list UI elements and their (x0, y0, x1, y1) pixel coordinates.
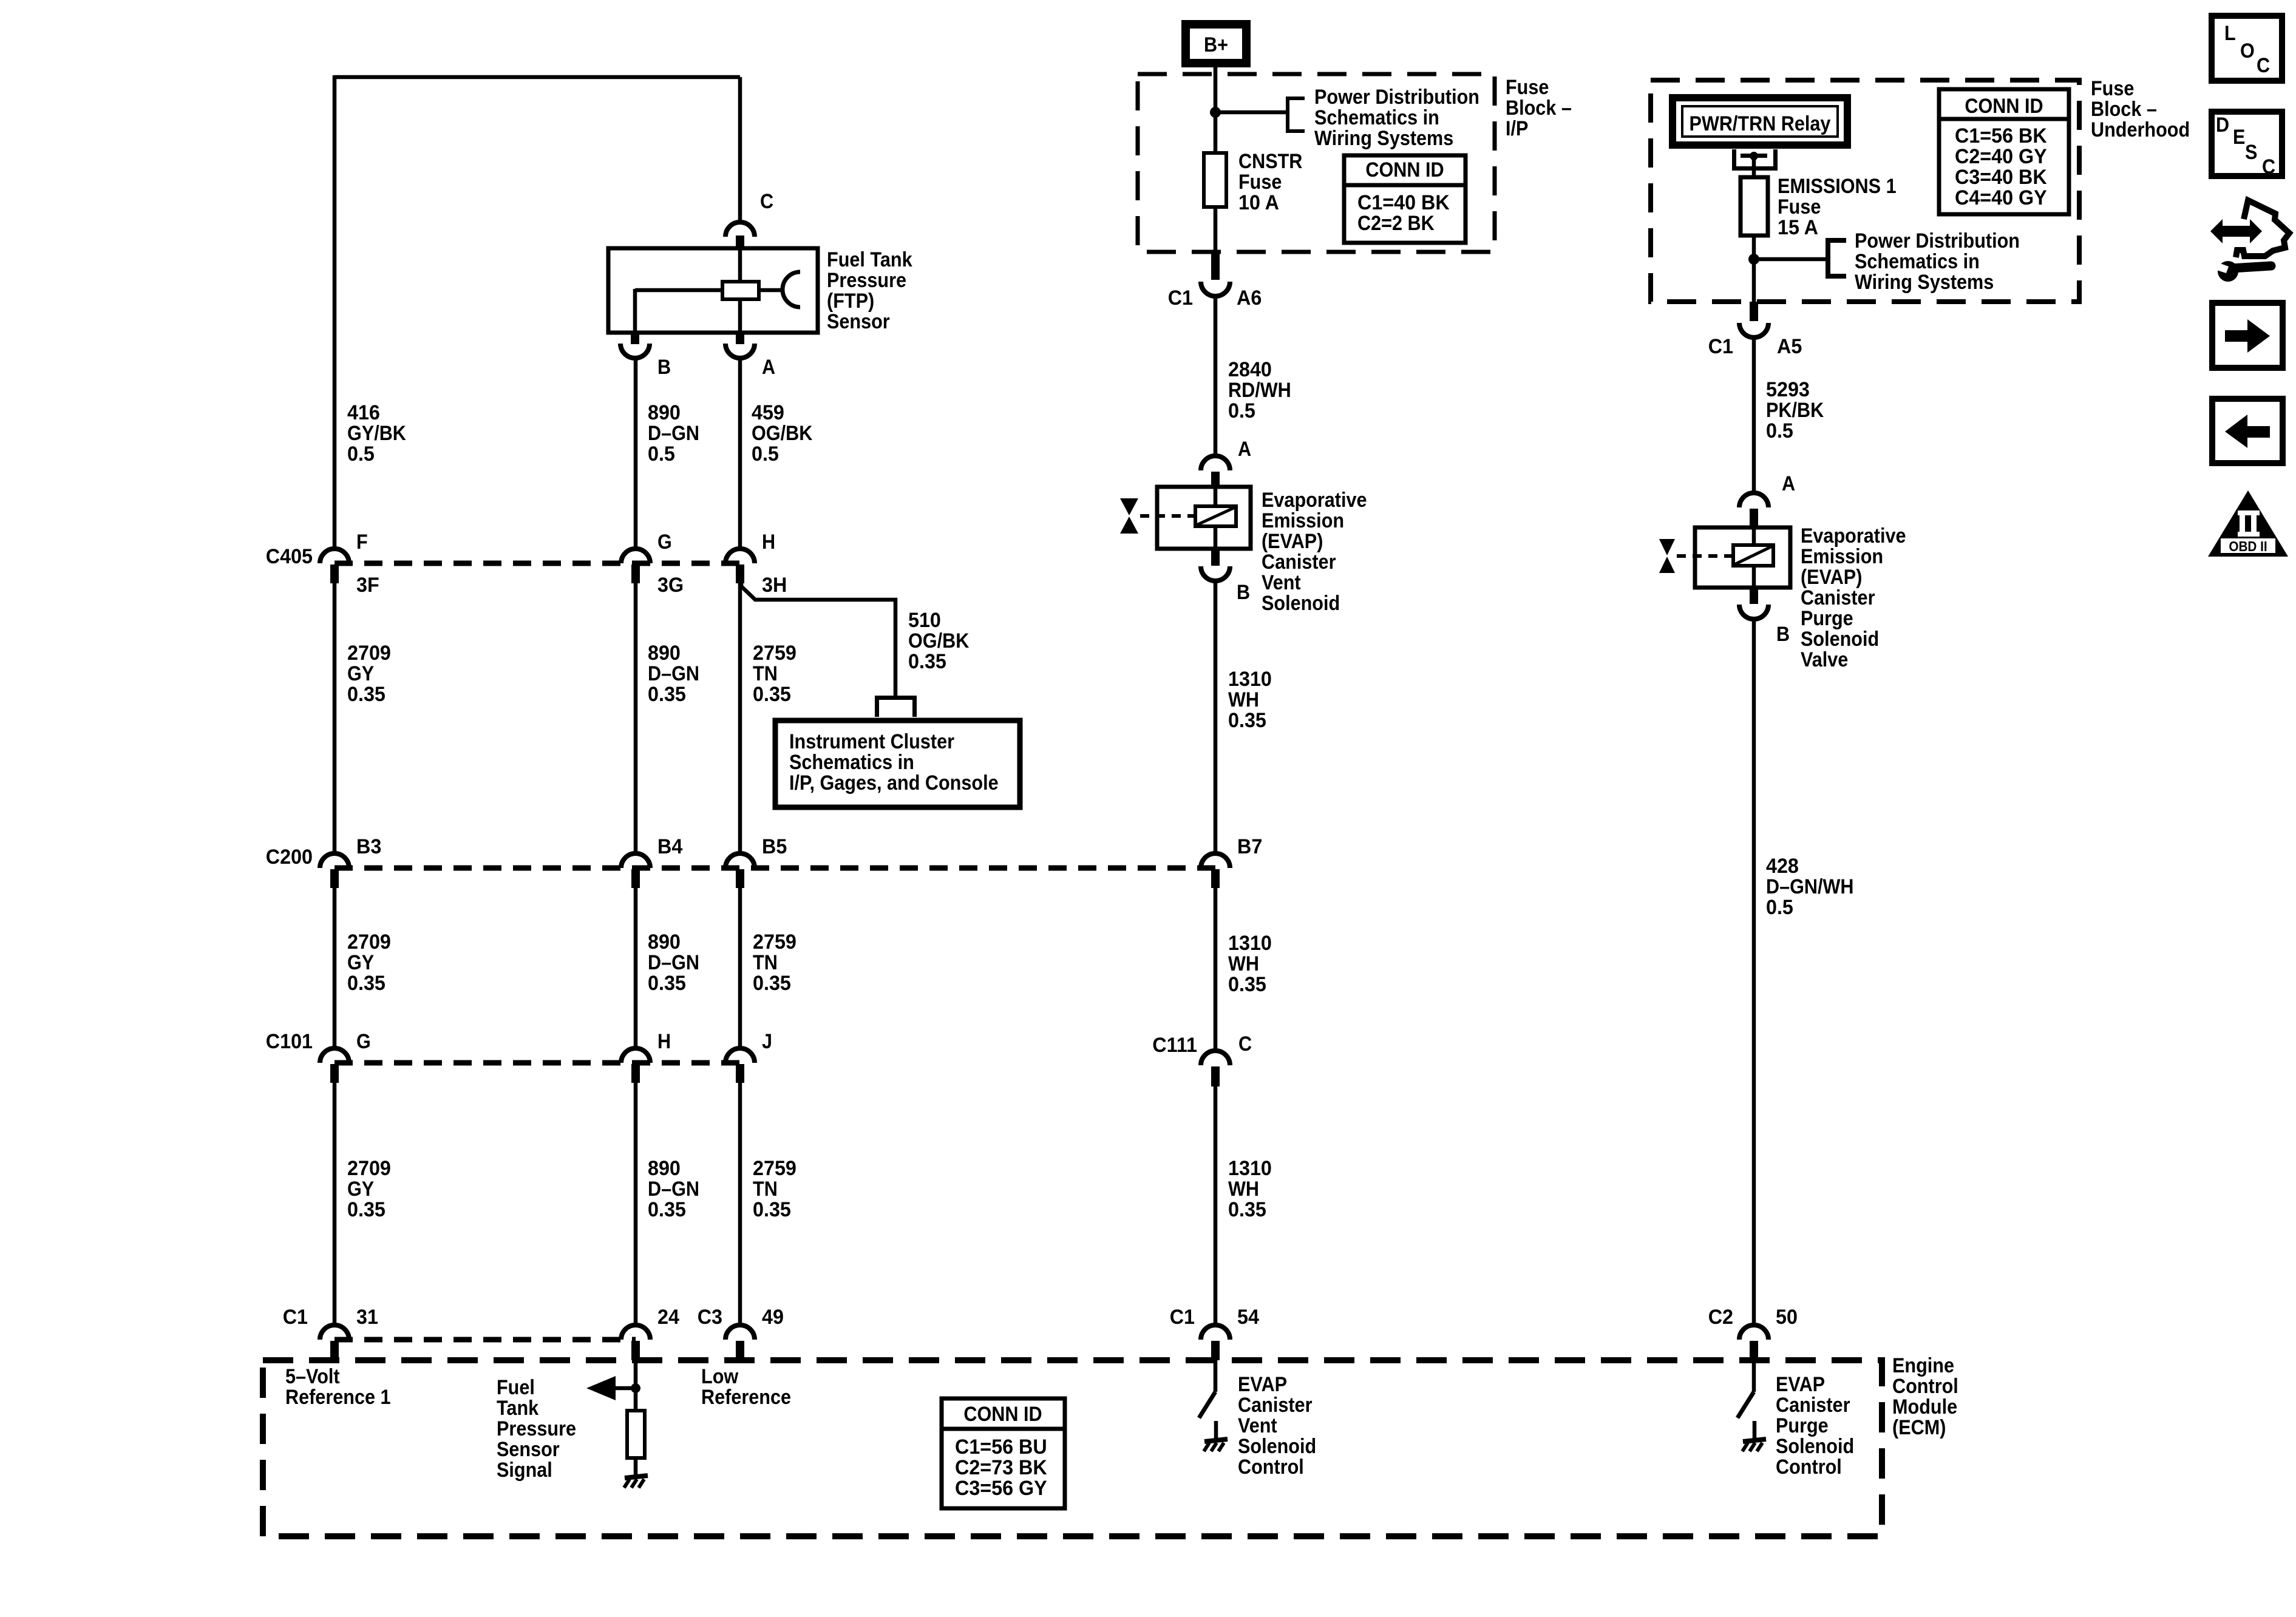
svg-text:Control: Control (1776, 1456, 1842, 1479)
svg-text:Solenoid: Solenoid (1238, 1435, 1316, 1458)
svg-text:Block –: Block – (2091, 98, 2157, 121)
svg-text:Fuel Tank: Fuel Tank (827, 248, 912, 271)
svg-text:GY: GY (347, 662, 374, 685)
label CONN ID header underhood (1965, 95, 2043, 118)
ground ECM signal (624, 1476, 648, 1488)
svg-text:Emission: Emission (1262, 509, 1344, 532)
wire EMISSIONS fuse down (1752, 236, 1756, 302)
connector C200 terminal B5 (725, 853, 755, 888)
svg-text:I/P: I/P (1506, 117, 1528, 140)
svg-text:Sensor: Sensor (497, 1438, 560, 1461)
svg-text:Schematics in: Schematics in (789, 751, 914, 774)
wire 2759 TN lower (738, 1083, 742, 1326)
wire 890 D-GN mid2 (634, 887, 638, 1049)
wire 2840 RD/WH (1214, 296, 1218, 456)
svg-text:E: E (2233, 126, 2245, 149)
wire branch 510 OG/BK from 3H (741, 583, 895, 696)
svg-text:CONN ID: CONN ID (1365, 158, 1444, 181)
label 890 D-GN 0.35 second (648, 931, 699, 995)
connector pin C of FTP sensor (725, 222, 755, 248)
icon diagnostic double arrow (2210, 219, 2262, 243)
connector C200 dashed line (335, 866, 1215, 871)
label A6 (1237, 286, 1262, 310)
CONN ID table ECM (942, 1398, 1065, 1508)
label EVAP Canister Purge Solenoid Control (1776, 1373, 1854, 1479)
svg-text:(EVAP): (EVAP) (1801, 566, 1862, 589)
connector ECM terminal 31 (320, 1325, 349, 1360)
label Fuel Tank Pressure Sensor Signal (497, 1376, 576, 1482)
svg-text:J: J (762, 1030, 772, 1053)
junction node signal (631, 1383, 640, 1393)
wire 2759 TN mid1 (738, 583, 742, 854)
svg-text:31: 31 (356, 1306, 378, 1329)
label C1=40 BK C2=2 BK (1357, 191, 1450, 235)
svg-text:Emission: Emission (1801, 545, 1883, 568)
label pin 3F (356, 574, 379, 597)
off-page bracket to instrument cluster (875, 696, 917, 717)
svg-text:C1: C1 (1170, 1306, 1195, 1329)
svg-text:Fuse: Fuse (1778, 195, 1821, 219)
wire B+ to CNSTR fuse (1214, 67, 1218, 153)
FTP sensor element (resistor) (722, 282, 759, 299)
FTP pressure port crescent (783, 272, 800, 307)
label pin H (762, 531, 775, 554)
label 2709 GY 0.35 first (347, 642, 391, 706)
svg-text:0.35: 0.35 (753, 972, 791, 995)
reference bracket power distribution I/P (1288, 97, 1305, 133)
svg-text:0.35: 0.35 (648, 972, 686, 995)
label A5 (1777, 335, 1802, 358)
svg-text:C111: C111 (1152, 1034, 1197, 1057)
svg-text:Canister: Canister (1776, 1394, 1850, 1417)
label 890 D-GN 0.5 (648, 401, 699, 466)
svg-text:Low: Low (701, 1365, 739, 1388)
svg-text:C2: C2 (1708, 1306, 1733, 1329)
svg-text:0.35: 0.35 (908, 650, 946, 673)
svg-text:0.35: 0.35 (753, 1198, 791, 1221)
connector C1 A5 fuse block exit (1739, 302, 1768, 337)
svg-text:TN: TN (753, 951, 778, 974)
svg-text:B7: B7 (1237, 835, 1262, 858)
label 1310 WH 0.35 first (1228, 668, 1272, 732)
icon forward arrow box (2212, 303, 2283, 368)
label CNSTR Fuse 10 A (1238, 150, 1302, 214)
svg-text:0.35: 0.35 (1228, 973, 1266, 996)
svg-text:Reference 1: Reference 1 (285, 1386, 391, 1409)
wire 1310 WH second (1214, 887, 1218, 1051)
connector pin B vent solenoid (1201, 549, 1230, 581)
svg-text:C3=56 GY: C3=56 GY (955, 1477, 1047, 1500)
label Evaporative Emission EVAP Canister Vent Solenoid (1262, 489, 1367, 615)
svg-text:1310: 1310 (1228, 668, 1272, 691)
svg-text:C2=2 BK: C2=2 BK (1357, 212, 1435, 235)
svg-text:CNSTR: CNSTR (1238, 150, 1302, 173)
icon vehicle outline (2236, 200, 2289, 257)
wire pin 24 into ECM (634, 1360, 638, 1411)
svg-text:GY/BK: GY/BK (347, 422, 406, 445)
wire 890 D-GN mid1 (634, 583, 638, 854)
svg-text:(EVAP): (EVAP) (1262, 530, 1323, 553)
connector ECM terminal 24 (621, 1325, 650, 1360)
svg-text:O: O (2240, 39, 2255, 63)
svg-text:0.35: 0.35 (347, 1198, 385, 1221)
fuse EMISSIONS 1 15A (1741, 177, 1768, 236)
svg-text:C1: C1 (1708, 335, 1733, 358)
signal arrow ECM (586, 1376, 636, 1400)
label C1 at A5 (1708, 335, 1733, 358)
label B+ (1204, 33, 1228, 56)
svg-text:428: 428 (1766, 855, 1799, 878)
svg-text:0.35: 0.35 (1228, 709, 1266, 732)
svg-text:Tank: Tank (497, 1397, 538, 1420)
label C1 at A6 (1168, 286, 1193, 310)
svg-text:C: C (2257, 54, 2270, 77)
svg-text:C101: C101 (266, 1030, 313, 1053)
label Fuse Block - I/P (1506, 76, 1572, 140)
wire 890 D-GN lower (634, 1083, 638, 1326)
wire 428 D-GN/WH (1752, 619, 1756, 1326)
svg-text:EMISSIONS 1: EMISSIONS 1 (1778, 175, 1897, 198)
svg-text:B: B (657, 356, 671, 379)
svg-text:C1: C1 (283, 1306, 308, 1329)
svg-text:Module: Module (1892, 1395, 1957, 1419)
fuse CNSTR 10A (1204, 153, 1226, 207)
svg-text:Solenoid: Solenoid (1801, 628, 1879, 651)
svg-text:TN: TN (753, 1178, 778, 1201)
svg-text:B4: B4 (657, 835, 682, 858)
svg-text:Block –: Block – (1506, 97, 1572, 120)
svg-text:GY: GY (347, 951, 374, 974)
label Engine Control Module (ECM) (1892, 1354, 1958, 1439)
wire relay to EMISSIONS fuse (1752, 158, 1756, 177)
svg-text:Schematics in: Schematics in (1314, 106, 1439, 129)
svg-text:Canister: Canister (1238, 1394, 1313, 1417)
instrument cluster reference box (775, 720, 1020, 807)
svg-text:Vent: Vent (1238, 1414, 1277, 1437)
svg-text:CONN ID: CONN ID (963, 1403, 1042, 1426)
svg-text:510: 510 (908, 609, 941, 632)
svg-text:5–Volt: 5–Volt (285, 1365, 340, 1388)
connector C405 terminal G (621, 549, 650, 583)
CONN ID table fuse block I/P (1344, 155, 1466, 243)
relay output terminal bracket (1732, 149, 1778, 171)
svg-text:I/P, Gages, and Console: I/P, Gages, and Console (789, 771, 999, 795)
switch EVAP purge control driver (1737, 1360, 1754, 1418)
label 1310 WH 0.35 second (1228, 932, 1272, 996)
svg-text:Fuse: Fuse (1506, 76, 1549, 99)
vent solenoid valve bowtie (1120, 498, 1194, 534)
label 459 OG/BK 0.5 (752, 401, 813, 466)
svg-text:50: 50 (1776, 1306, 1798, 1329)
svg-text:Evaporative: Evaporative (1801, 524, 1906, 547)
svg-text:A5: A5 (1777, 335, 1802, 358)
svg-text:890: 890 (648, 401, 681, 424)
label pin B5 (762, 835, 787, 858)
label CONN ID header I/P (1365, 158, 1444, 181)
label pin 49 (762, 1306, 784, 1329)
svg-text:Fuel: Fuel (497, 1376, 535, 1399)
label 5293 PK/BK 0.5 (1766, 378, 1824, 442)
svg-text:C4=40 GY: C4=40 GY (1955, 186, 2047, 209)
label C200 (266, 846, 313, 869)
svg-text:G: G (657, 531, 672, 554)
svg-text:GY: GY (347, 1178, 374, 1201)
label C1 at pin 31 (283, 1306, 308, 1329)
label pin A vent (1238, 438, 1251, 461)
svg-text:2709: 2709 (347, 642, 391, 665)
svg-text:WH: WH (1228, 688, 1259, 711)
label 510 OG/BK 0.35 (908, 609, 970, 673)
label Fuse Block - Underhood (2091, 77, 2190, 141)
junction node on 5293 feed (1748, 254, 1759, 265)
wire 890 D-GN upper (634, 358, 638, 549)
label C405 (266, 545, 313, 568)
EVAP canister vent solenoid box (1157, 487, 1251, 549)
svg-text:49: 49 (762, 1306, 784, 1329)
svg-text:TN: TN (753, 662, 778, 685)
icon back arrow box (2212, 399, 2283, 463)
svg-text:F: F (356, 531, 368, 554)
svg-text:C3=40 BK: C3=40 BK (1955, 166, 2047, 189)
svg-text:Schematics in: Schematics in (1855, 250, 1980, 273)
label C101 (266, 1030, 313, 1053)
label 1310 WH 0.35 third (1228, 1157, 1272, 1221)
svg-text:Engine: Engine (1892, 1354, 1954, 1377)
connector C101 terminal J (725, 1048, 755, 1083)
svg-text:0.35: 0.35 (347, 972, 385, 995)
label CONN ID header ECM (963, 1403, 1042, 1426)
wire junction to underhood bracket (1754, 257, 1826, 262)
CONN ID table fuse block underhood (1939, 89, 2069, 214)
svg-text:24: 24 (657, 1306, 679, 1329)
FTP sensor internal wiring (635, 248, 784, 333)
label 890 D-GN 0.35 third (648, 1157, 699, 1221)
label 2709 GY 0.35 third (347, 1157, 391, 1221)
svg-text:B+: B+ (1204, 33, 1228, 56)
label C3 at pin 49 (698, 1306, 722, 1329)
svg-text:0.5: 0.5 (1766, 896, 1793, 919)
svg-text:10 A: 10 A (1238, 191, 1279, 214)
wire resistor to ground (634, 1458, 638, 1476)
label pin A purge (1782, 472, 1795, 495)
wire 416 GY/BK vertical (333, 75, 337, 549)
svg-text:EVAP: EVAP (1238, 1373, 1287, 1396)
label pin B (657, 356, 671, 379)
wire 1310 WH first (1214, 581, 1218, 854)
ground vent driver (1204, 1421, 1228, 1451)
svg-text:0.5: 0.5 (752, 442, 779, 466)
svg-text:A: A (762, 356, 775, 379)
svg-text:3G: 3G (657, 574, 684, 597)
connector C200 terminal B7 (1201, 853, 1230, 888)
label pin 24 (657, 1306, 679, 1329)
svg-text:C: C (760, 190, 773, 213)
label pin B purge (1776, 623, 1790, 646)
PWR/TRN relay box (1673, 98, 1847, 145)
label 2840 RD/WH 0.5 (1228, 358, 1291, 422)
svg-text:B5: B5 (762, 835, 787, 858)
wire 459 top vertical to FTP pin C (738, 77, 742, 223)
svg-text:A: A (1238, 438, 1251, 461)
svg-text:0.5: 0.5 (1766, 419, 1793, 442)
label EMISSIONS 1 Fuse 15 A (1778, 175, 1897, 239)
svg-text:2840: 2840 (1228, 358, 1272, 381)
svg-text:Evaporative: Evaporative (1262, 489, 1367, 512)
svg-text:C: C (1238, 1032, 1252, 1056)
wire junction to reference bracket (1215, 110, 1287, 115)
svg-text:0.35: 0.35 (347, 683, 385, 706)
svg-text:WH: WH (1228, 952, 1259, 975)
svg-text:5293: 5293 (1766, 378, 1810, 401)
svg-text:Canister: Canister (1262, 551, 1336, 574)
svg-text:B3: B3 (356, 835, 381, 858)
svg-text:B: B (1237, 581, 1250, 604)
label Power Distribution Schematics underhood (1855, 229, 2020, 294)
icon DESC box (2212, 112, 2282, 178)
svg-text:1310: 1310 (1228, 1157, 1272, 1180)
label C111 (1152, 1034, 1197, 1057)
svg-text:Instrument Cluster: Instrument Cluster (789, 730, 954, 753)
label Low Reference (701, 1365, 791, 1409)
connector pin A of FTP sensor (725, 333, 755, 358)
label pin G (356, 1030, 371, 1053)
svg-text:Vent: Vent (1262, 571, 1301, 594)
svg-text:Control: Control (1892, 1375, 1958, 1398)
svg-text:0.35: 0.35 (1228, 1198, 1266, 1221)
svg-text:459: 459 (752, 401, 784, 424)
svg-text:Wiring Systems: Wiring Systems (1855, 271, 1994, 294)
purge solenoid valve bowtie (1659, 539, 1731, 573)
label 2709 GY 0.35 second (347, 931, 391, 995)
label EVAP Canister Vent Solenoid Control (1238, 1373, 1316, 1479)
label pin C (760, 190, 773, 213)
svg-text:2709: 2709 (347, 1157, 391, 1180)
connector C405 terminal F (320, 549, 349, 583)
label pin B7 (1237, 835, 1262, 858)
svg-text:C1=40 BK: C1=40 BK (1357, 191, 1450, 214)
label Evaporative Emission EVAP Canister Purge Solenoid Valve (1801, 524, 1906, 671)
label pin B4 (657, 835, 682, 858)
wire 2709 GY mid1 (333, 583, 337, 854)
svg-text:Purge: Purge (1776, 1414, 1829, 1437)
svg-text:54: 54 (1237, 1306, 1259, 1329)
svg-text:416: 416 (347, 401, 380, 424)
connector C101 terminal H (621, 1048, 650, 1083)
svg-text:WH: WH (1228, 1178, 1259, 1201)
svg-text:Solenoid: Solenoid (1776, 1435, 1854, 1458)
svg-text:PWR/TRN Relay: PWR/TRN Relay (1690, 112, 1831, 135)
label C1=56 BU C2=73 BK C3=56 GY (955, 1436, 1047, 1500)
svg-text:3F: 3F (356, 574, 379, 597)
svg-text:0.35: 0.35 (753, 683, 791, 706)
svg-text:Power Distribution: Power Distribution (1855, 229, 2020, 253)
label pin 54 (1237, 1306, 1259, 1329)
svg-text:Canister: Canister (1801, 586, 1875, 609)
svg-text:A: A (1782, 472, 1795, 495)
svg-text:Pressure: Pressure (827, 269, 906, 292)
ECM connector row dashed line (335, 1337, 636, 1343)
svg-text:Fuse: Fuse (1238, 171, 1282, 194)
svg-text:(FTP): (FTP) (827, 290, 874, 313)
svg-text:2759: 2759 (753, 931, 796, 954)
label pin B3 (356, 835, 381, 858)
svg-text:2759: 2759 (753, 1157, 796, 1180)
svg-text:Power Distribution: Power Distribution (1314, 86, 1479, 109)
svg-text:OG/BK: OG/BK (752, 422, 813, 445)
label 890 D-GN 0.35 first (648, 642, 699, 706)
svg-text:C1: C1 (1168, 286, 1193, 310)
svg-text:15 A: 15 A (1778, 216, 1818, 239)
label pin 50 (1776, 1306, 1798, 1329)
engine control module dashed box (263, 1360, 1882, 1536)
B+ battery feed symbol (1186, 24, 1246, 63)
svg-text:PK/BK: PK/BK (1766, 399, 1824, 422)
label pin F (356, 531, 368, 554)
svg-text:Reference: Reference (701, 1386, 791, 1409)
svg-text:B: B (1776, 623, 1790, 646)
label 416 GY/BK 0.5 (347, 401, 406, 466)
svg-text:C3: C3 (698, 1306, 722, 1329)
svg-text:1310: 1310 (1228, 932, 1272, 955)
svg-text:D–GN: D–GN (648, 422, 699, 445)
svg-text:Control: Control (1238, 1456, 1304, 1479)
svg-text:Sensor: Sensor (827, 310, 890, 333)
connector ECM terminal 54 (1201, 1325, 1230, 1360)
svg-text:Purge: Purge (1801, 607, 1853, 630)
vent solenoid coil element (1195, 487, 1236, 549)
connector C111 (1201, 1051, 1230, 1086)
svg-text:3H: 3H (762, 574, 787, 597)
svg-text:D: D (2216, 114, 2229, 137)
svg-text:A6: A6 (1237, 286, 1262, 310)
icon OBD II triangle (2208, 490, 2288, 557)
fuse block underhood dashed box (1651, 80, 2079, 302)
resistor inside ECM (627, 1411, 645, 1458)
connector pin A purge solenoid (1739, 493, 1768, 527)
svg-text:L: L (2224, 22, 2236, 45)
label 2759 TN 0.35 second (753, 931, 796, 995)
wire 459 OG/BK upper (738, 358, 742, 549)
label C1=56 BK C2=40 GY C3=40 BK C4=40 GY (1955, 124, 2047, 209)
svg-text:890: 890 (648, 1157, 681, 1180)
wire CNSTR fuse to connector A6 (1214, 207, 1218, 253)
svg-text:0.5: 0.5 (1228, 399, 1255, 422)
svg-text:CONN ID: CONN ID (1965, 95, 2043, 118)
connector C405 terminal H (725, 549, 755, 583)
svg-text:RD/WH: RD/WH (1228, 379, 1291, 402)
connector C200 terminal B4 (621, 853, 650, 888)
label pin 3G (657, 574, 684, 597)
label pin 3H (762, 574, 787, 597)
label 5-Volt Reference 1 (285, 1365, 391, 1409)
svg-text:Solenoid: Solenoid (1262, 592, 1340, 615)
svg-text:(ECM): (ECM) (1892, 1416, 1946, 1439)
wire 2759 TN mid2 (738, 887, 742, 1049)
label 428 D-GN/WH 0.5 (1766, 855, 1854, 919)
svg-text:EVAP: EVAP (1776, 1373, 1825, 1396)
fuse block I/P dashed box (1138, 74, 1495, 252)
label C1 at pin 54 (1170, 1306, 1195, 1329)
label PWR/TRN Relay (1690, 112, 1831, 135)
svg-text:0.35: 0.35 (648, 1198, 686, 1221)
svg-text:Underhood: Underhood (2091, 118, 2190, 141)
svg-text:C2=73 BK: C2=73 BK (955, 1456, 1047, 1479)
label Instrument Cluster Schematics (789, 730, 999, 795)
reference bracket power distribution underhood (1828, 238, 1846, 279)
svg-text:G: G (356, 1030, 371, 1053)
svg-text:2709: 2709 (347, 931, 391, 954)
svg-text:Valve: Valve (1801, 648, 1848, 671)
